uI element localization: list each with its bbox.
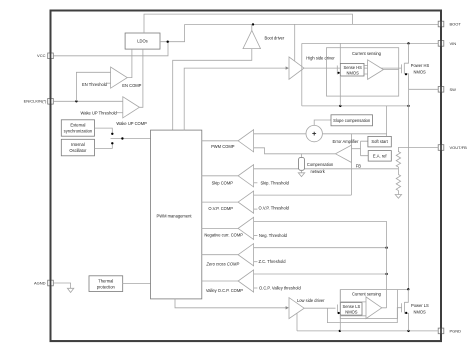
node LS drain junction [407,288,409,290]
compensation network Z1 [298,154,334,177]
wire valley input from sense bus [254,273,387,275]
wire boot driver output [251,24,253,30]
svg-text:NMOS: NMOS [414,70,427,75]
node selector pole [121,137,123,139]
wire SW vertical to low side drain [408,89,410,289]
wire thermal protection to PWM management [123,283,151,285]
wire sense HS source [339,76,341,106]
svg-text:Skip COMP: Skip COMP [212,180,234,185]
op-amp HS current sense [364,60,399,80]
svg-text:Compensation: Compensation [307,162,334,167]
svg-text:Soft start: Soft start [371,139,388,144]
svg-text:High side driver: High side driver [306,55,335,60]
pin VCC [37,53,53,59]
pin AGND [34,280,53,286]
Slope compensation block [331,115,373,126]
svg-text:BOOT: BOOT [450,22,462,27]
transistor power HS NMOS [402,43,430,89]
Wake UP Threshold reference [81,110,123,115]
Thermal protection block [89,276,123,292]
node power LS source on rail [407,330,409,332]
node LDO output [167,41,169,43]
svg-text:VIN: VIN [450,41,457,46]
Wake UP COMP U4 [116,97,147,127]
svg-text:EN/CLKIN(*): EN/CLKIN(*) [24,99,47,104]
EN Threshold reference [82,82,111,87]
wire divider tap [397,167,399,175]
wire zero cross input from sense bus [254,247,387,249]
arrow into low side driver [286,306,289,309]
svg-text:O.V.P. Threshold: O.V.P. Threshold [259,206,290,211]
wire high side drive control [184,68,286,130]
Negative Threshold reference [254,233,288,238]
EN COMP U3 [111,67,142,88]
wire EN COMP output to LDOs [127,49,132,78]
wire AGND to ground [53,283,70,288]
comparator PWM COMP [202,130,254,152]
comparator Zero cross COMP [202,244,254,267]
wire LS gate line [304,307,335,309]
wire EA feedback riser [350,134,352,195]
Internal Oscillator block [61,139,94,156]
node sense LS source on rail [339,330,341,332]
svg-text:Z.C. Threshold: Z.C. Threshold [259,259,287,264]
current sensing LS frame [340,290,397,319]
svg-text:LDOs: LDOs [137,39,147,44]
Skip Threshold reference [254,180,290,185]
wire sense LS source [339,315,341,331]
svg-text:PWM management: PWM management [156,214,192,219]
svg-text:VOUT/FB: VOUT/FB [450,145,468,150]
low side driver U7 [289,298,325,319]
wire PGND rail [297,330,438,332]
pin PGND [438,328,461,334]
wire LS gate branch to power FET [327,308,401,323]
svg-text:Power HS: Power HS [411,63,430,68]
comparator Skip COMP [202,165,254,187]
LDOs U1 [125,33,160,49]
arrow into high side driver [286,66,289,69]
svg-text:Low side driver: Low side driver [297,298,325,303]
svg-text:Current sensing: Current sensing [352,291,382,296]
node valley bus junction [385,273,387,275]
wire selector pole to PWM management [111,138,151,140]
pin VIN [438,41,456,47]
wire EA reference input bus [351,141,368,156]
node selector throw B [111,142,113,144]
wire HS gate line [304,67,402,69]
boot driver U2 [243,30,285,48]
comparator OVP COMP [202,191,254,213]
wire high side source rail [302,105,409,107]
summing node S1 [306,125,322,141]
resistor R2 divider bottom [396,175,400,191]
svg-text:Skip. Threshold: Skip. Threshold [261,180,290,185]
wire divider to ground [397,191,399,195]
PWM management block [151,130,202,299]
wire Wake UP COMP output to LDOs [139,49,143,107]
OVP Threshold reference [254,206,290,211]
svg-text:NMOS: NMOS [414,310,427,315]
outer IC boundary [51,11,442,342]
wire SW [409,88,439,90]
svg-text:protection: protection [97,285,116,290]
ZC Threshold reference [254,259,287,264]
svg-text:network: network [311,169,326,174]
node ZC bus junction [385,247,387,249]
wire LDO output to boot rail riser [160,24,185,41]
ground divider [395,195,401,199]
node power HS source on rail [407,105,409,107]
svg-text:O.V.P. COMP: O.V.P. COMP [208,206,233,211]
svg-text:E.A. ref: E.A. ref [373,153,388,158]
error amplifier U6 [333,139,360,162]
svg-text:PGND: PGND [450,329,462,334]
wire VCC to LDO output node [53,42,168,56]
svg-text:SW: SW [450,87,457,92]
wire summing input from current sense rail [322,133,386,135]
wire OVP input from FB [254,194,352,196]
pin EN/CLKIN(*) [24,99,54,105]
External synchronization block [61,120,94,136]
wire negative comp input from sense bus [254,220,387,222]
wire EN to EN COMP [76,72,110,101]
svg-text:Thermal: Thermal [98,279,113,284]
wire summing output to PWM COMP [254,133,306,135]
wire VOUT/FB pin to divider [398,148,438,153]
wire boot rail drop to high side driver supply [294,24,296,60]
wire sense LS drain [339,290,341,303]
resistor R1 divider top [396,152,400,168]
transistor power LS NMOS [402,289,429,331]
comparator Valley OCP COMP [202,270,254,293]
svg-text:Valley O.C.P. COMP: Valley O.C.P. COMP [206,288,243,293]
wire low side driver ground leg [296,313,298,331]
svg-text:AGND: AGND [34,280,46,285]
pin VOUT/FB [438,145,467,151]
wire FB line [254,168,399,170]
svg-text:Wake UP COMP: Wake UP COMP [116,121,147,126]
svg-text:Sense LS: Sense LS [343,304,361,309]
svg-text:EN Threshold: EN Threshold [82,82,108,87]
svg-text:Error Amplifier: Error Amplifier [333,139,360,144]
pin BOOT [438,21,461,27]
node boot driver tap [252,23,254,25]
transistor sense LS NMOS [338,303,363,316]
svg-text:Boot driver: Boot driver [265,36,285,41]
Valley Threshold reference [254,286,302,291]
svg-text:NMOS: NMOS [347,71,360,76]
node sense HS source on rail [339,105,341,107]
wire current sense bus vertical [386,221,388,307]
E.A. ref block [368,151,391,162]
wire EN/CLKIN input [53,100,123,102]
wire BOOT rail [185,23,439,25]
ground AGND [67,288,73,292]
svg-text:External: External [70,123,85,128]
wire boot driver input from PWM management [173,49,252,131]
wire summing to slope compensation [314,120,331,125]
svg-text:FB: FB [356,164,362,169]
svg-text:Internal: Internal [71,142,85,147]
svg-text:Zero cross COMP: Zero cross COMP [205,262,239,267]
svg-text:Current sensing: Current sensing [352,51,382,56]
svg-text:Neg. Threshold: Neg. Threshold [259,233,288,238]
svg-text:VCC: VCC [37,53,46,58]
wire VIN rail [302,42,438,44]
node selector throw A [111,133,113,135]
wire ext sync to selector [95,128,113,133]
wire oscillator to selector [95,145,113,149]
node EN split [75,100,77,102]
wire high side frame left [301,43,303,106]
svg-text:Power LS: Power LS [411,303,429,308]
op-amp LS current sense [340,297,386,319]
wire sense HS drain [339,43,341,63]
svg-text:NMOS: NMOS [345,310,358,315]
svg-text:PWM COMP: PWM COMP [211,144,235,149]
wire low side drive control [175,299,287,308]
node VIN power FET drain [407,42,409,44]
high side driver U5 [289,55,335,79]
svg-text:synchronization: synchronization [64,129,93,134]
Soft start block [368,136,391,147]
pin SW [438,87,456,93]
current sensing HS frame [327,48,399,96]
wire LDO top rail to boot rail [144,14,353,33]
svg-text:Wake UP Threshold: Wake UP Threshold [81,110,118,115]
svg-text:Slope compensation: Slope compensation [333,118,371,123]
svg-text:Sense HS: Sense HS [343,65,362,70]
svg-text:Negative curr. COMP: Negative curr. COMP [204,233,243,238]
transistor sense HS NMOS [337,63,364,76]
comparator Negative current COMP [202,217,254,239]
svg-text:O.C.P. Valley threshold: O.C.P. Valley threshold [259,286,301,291]
wire LS drain tie to SW node [398,289,409,291]
wire source rail tap to summing line [386,106,388,136]
wire EA output to compensation line [254,148,336,154]
outer IC boundary overlay [51,11,442,342]
svg-text:Oscillator: Oscillator [69,148,87,153]
svg-text:EN COMP: EN COMP [122,83,141,88]
